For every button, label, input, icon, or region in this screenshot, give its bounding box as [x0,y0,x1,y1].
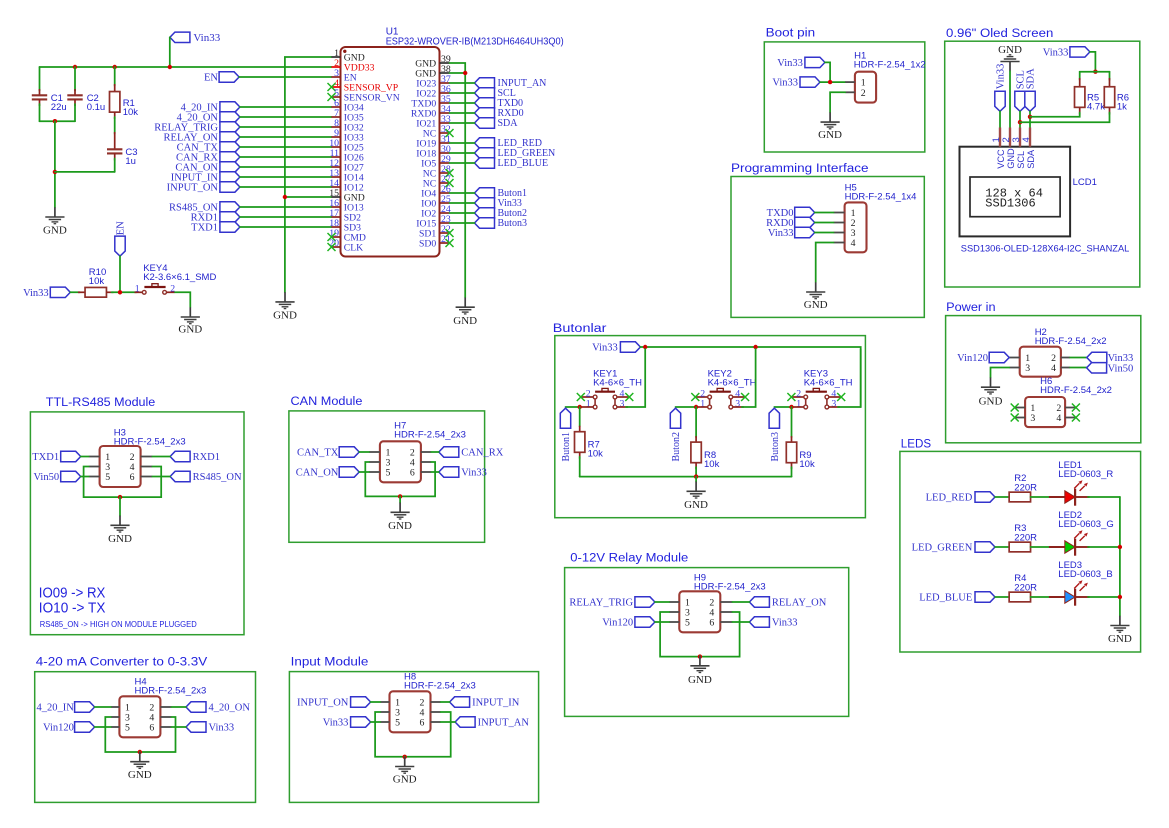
resistor R4 [1009,592,1030,602]
wire KEY1 node [566,406,580,408]
wire pin2 to RELAY_ON [732,601,749,603]
svg-text:SDA: SDA [1026,149,1036,169]
global label Vin33 (butonlar) [620,342,640,352]
junction at Vin33 drop [168,65,172,69]
svg-text:1u: 1u [125,156,136,167]
U1 pin 36 IO22 [440,92,450,94]
U1 pin 27 NC [440,182,450,184]
wire gnd stem [404,756,406,758]
capacitor C1 [39,67,41,91]
U1 pin 37 IO23 [440,82,450,84]
wire RELAY_ON to U1 [240,136,332,138]
svg-text:GND: GND [273,310,297,322]
junction at R1 top [113,65,117,69]
wire LED3 to gnd rail [1088,596,1120,598]
svg-text:10k: 10k [799,459,815,470]
junction led3 [1118,595,1122,599]
svg-text:ESP32-WROVER-IB(M213DH6464UH3Q: ESP32-WROVER-IB(M213DH6464UH3Q0) [386,37,564,48]
global label INPUT_AN [475,78,495,88]
junction KEY2 [694,405,698,409]
svg-text:INPUT_ON: INPUT_ON [297,698,349,709]
svg-text:4_20_ON: 4_20_ON [209,703,251,714]
global label Vin33 [749,617,769,627]
U1 pin 24 IO2 [440,212,450,214]
svg-text:EN: EN [204,73,218,84]
svg-text:1k: 1k [1117,102,1127,113]
U1 pin 13 IO14 [332,176,341,178]
svg-text:LEDS: LEDS [901,438,932,450]
junction C3 gnd [53,170,57,174]
wire RXD1 to U1 [240,216,332,218]
svg-text:3: 3 [1030,413,1035,424]
global label CAN_TX [339,447,359,457]
U1 pin 11 IO26 [332,156,341,158]
junction gnd loop [138,750,142,754]
svg-text:GND: GND [998,44,1022,56]
svg-text:5: 5 [685,618,690,629]
ground (Input Module) [404,757,406,767]
resistor R (KEY2) [695,407,697,437]
wire pin3 gnd loop [375,712,451,757]
global label RXD1 [220,212,240,222]
junction pin38 [463,71,467,75]
global label RXD0 [475,108,495,118]
global label Vin50 (power) [1087,363,1107,373]
svg-text:Vin33: Vin33 [209,723,235,734]
global label INPUT_IN [450,697,470,707]
svg-text:GND: GND [43,224,67,236]
svg-text:6: 6 [420,718,425,729]
svg-text:GND: GND [1108,633,1132,645]
U1 pin 8 IO32 [332,126,341,128]
wire CAN_RX to U1 [240,156,332,158]
wire R3 to LED2 [1031,546,1051,548]
svg-text:5: 5 [386,468,391,479]
global label TXD1 [220,222,240,232]
wire R6 to SCL [1020,113,1110,123]
global label Buton (vertical) KEY1 [560,408,570,428]
junction gnd bus [694,474,698,478]
global label CAN_ON [339,467,359,477]
resistor R10 [78,291,85,293]
wire pin3 gnd loop [105,717,175,752]
wire R bottom (KEY2) [695,467,697,477]
svg-text:4.7k: 4.7k [1087,102,1105,113]
wire gnd stem [139,751,141,753]
wire KEY2 pin3 to rail [742,349,756,407]
svg-text:Vin120: Vin120 [602,618,633,629]
svg-text:VCC: VCC [996,149,1006,169]
wire LED2 to gnd rail [1088,546,1120,548]
svg-text:HDR-F-2.54_2x2: HDR-F-2.54_2x2 [1035,336,1107,347]
U1 pin 35 TXD0 [440,102,450,104]
svg-text:GND: GND [393,774,417,786]
svg-text:Vin50: Vin50 [33,472,59,483]
global label Buton3 [475,218,495,228]
ground (U1 left) [284,292,286,302]
wire Vin33 drop [169,37,171,67]
svg-text:Vin33: Vin33 [772,78,798,89]
svg-text:LED-0603_R: LED-0603_R [1058,469,1113,480]
wire TXD1 to U1 [240,226,332,228]
global label Vin33 (prog) [795,227,815,237]
wire to R4 [995,596,1009,598]
svg-text:Power in: Power in [946,302,996,314]
resistor R (KEY1) [579,407,581,427]
svg-text:Input Module: Input Module [291,657,369,669]
wire vin33 to divider [1090,52,1096,72]
global label CAN_TX [220,142,240,152]
junction KEY3 [789,405,793,409]
ground (U1 right) [464,298,466,308]
svg-text:RELAY_TRIG: RELAY_TRIG [569,598,633,609]
svg-text:3: 3 [1025,363,1030,374]
global label RS485_ON [220,202,240,212]
junction led2 [1118,545,1122,549]
global label TXD1 [61,451,81,461]
wire pin2 to RXD1 [152,456,170,458]
svg-text:EN: EN [116,221,127,235]
svg-text:HDR-F-2.54_2x2: HDR-F-2.54_2x2 [1040,385,1112,396]
global label RELAY_ON [220,132,240,142]
junction SDA [1028,115,1032,119]
svg-text:GND: GND [108,533,132,545]
svg-text:LED-0603_B: LED-0603_B [1058,569,1112,580]
svg-text:4_20_IN: 4_20_IN [37,703,75,714]
svg-text:Buton1: Buton1 [561,432,572,461]
svg-text:4: 4 [1021,137,1032,142]
junction key2 rail [753,345,757,349]
global label Vin33 [186,722,206,732]
svg-text:Boot pin: Boot pin [766,27,816,39]
global label LED_BLUE [975,592,995,602]
wire TXD0 to H5 [815,212,834,214]
power flag Vin33 (top left) [170,32,190,42]
wire U1 pin15 to gnd rail [285,196,332,198]
wire KEY4 to gnd [175,292,190,307]
global label LED_GREEN [475,148,495,158]
wire R bottom (KEY1) [579,457,581,477]
resistor R (KEY3) [791,407,793,437]
svg-text:GND: GND [453,315,477,327]
ground (0-12V Relay Module) [699,656,701,666]
svg-text:Vin50: Vin50 [1108,363,1134,374]
svg-text:10k: 10k [123,107,139,118]
junction SCL [1018,120,1022,124]
wire CAN_TX to pin1 [359,451,369,453]
svg-text:Buton2: Buton2 [671,432,682,461]
wire R5 to SDA [1030,113,1080,117]
wire RS485_ON to U1 [240,206,332,208]
wire C3 to gnd bus [55,171,115,173]
svg-text:SSD1306: SSD1306 [985,196,1035,210]
svg-text:LED_GREEN: LED_GREEN [912,543,973,554]
wire CAN_ON to U1 [240,166,332,168]
wire U1 pin39 gnd [450,63,466,73]
wire U1 to INPUT_AN [450,82,475,84]
U1 pin 5 SENSOR_VN [332,96,341,98]
wire Vin50 to pin5 [81,476,89,478]
svg-text:HDR-F-2.54_1x4: HDR-F-2.54_1x4 [845,192,917,203]
global label TXD0 [475,98,495,108]
svg-text:Vin33: Vin33 [23,288,49,299]
svg-text:4-20 mA Converter to 0-3.3V: 4-20 mA Converter to 0-3.3V [36,657,208,669]
wire U1 to TXD0 [450,102,475,104]
wire pin6 to Vin33 [732,621,749,623]
global label INPUT_ON [351,697,371,707]
svg-text:GND: GND [178,324,202,336]
wire pin6 to INPUT_AN [441,721,455,723]
wire divider rail [1080,71,1110,73]
global label 4_20_ON [186,702,206,712]
svg-text:TXD1: TXD1 [32,452,59,463]
svg-text:LED_RED: LED_RED [926,493,973,504]
wire C1-C2 bottom [40,120,76,122]
U1 pin 38 GND [440,72,450,74]
U1 pin 39 GND [440,62,450,64]
junction boot [828,80,832,84]
no-connect H6 pins [1011,404,1019,412]
svg-text:4: 4 [851,238,856,249]
U1 pin 26 IO4 [440,192,450,194]
wire RXD0 to H5 [815,222,834,224]
wire GND bus left [54,121,56,207]
global label Vin33 (boot 1) [805,57,825,67]
svg-text:INPUT_IN: INPUT_IN [472,698,520,709]
global label Buton1 [475,188,495,198]
svg-text:LCD1: LCD1 [1073,177,1097,188]
svg-text:GND: GND [804,299,828,311]
ground (power in) [990,378,992,388]
global label Vin33 (oled top) [1070,47,1090,57]
svg-text:GND: GND [688,674,712,686]
global label LED_RED [975,492,995,502]
U1 pin 17 SD2 [332,216,341,218]
svg-text:0-12V Relay Module: 0-12V Relay Module [570,553,688,565]
svg-text:K4-6×6_TH: K4-6×6_TH [593,377,642,388]
global label 4_20_IN [220,102,240,112]
global label CAN_ON [220,162,240,172]
svg-text:IO09 -> RX: IO09 -> RX [39,585,106,601]
wire Vin120 to pin5 [655,621,669,623]
svg-text:6: 6 [410,468,415,479]
wire pin6 to Vin33 [431,471,439,473]
resistor R6 [1109,72,1111,80]
wire INPUT_ON to U1 [240,186,332,188]
U1 pin 4 SENSOR_VP [332,86,341,88]
U1 pin 7 IO35 [332,116,341,118]
junction divider top [1093,70,1097,74]
wire Vin33 to H5 [815,232,834,234]
global label Vin33 [475,198,495,208]
svg-text:GND: GND [1006,148,1016,169]
svg-text:220R: 220R [1014,483,1037,494]
svg-text:0.96" Oled Screen: 0.96" Oled Screen [946,28,1053,40]
svg-text:SDA: SDA [498,118,519,129]
U1 pin 14 IO12 [332,186,341,188]
global label LED_BLUE [475,158,495,168]
U1 pin 1 GND [332,56,341,58]
wire Vin33 to R10 [70,291,80,293]
ground (CAN Module) [399,503,401,513]
svg-text:SSD1306-OLED-128X64-I2C_SHANZA: SSD1306-OLED-128X64-I2C_SHANZAL [961,243,1130,253]
U1 pin 33 IO21 [440,122,450,124]
svg-text:GND: GND [979,395,1003,407]
wire Vin120 to pin5 [95,726,111,728]
wire pin6 to Vin33 [171,726,186,728]
svg-text:Vin33: Vin33 [193,32,220,44]
svg-text:Buton3: Buton3 [770,432,781,461]
svg-text:RS485_ON: RS485_ON [193,472,242,483]
wire pin3 gnd loop [84,467,162,498]
wire oled gnd to LCD pin2 [1009,71,1011,129]
resistor R2 [1009,492,1030,502]
wire RELAY_TRIG to pin1 [655,601,669,603]
svg-text:SDA: SDA [1026,68,1037,89]
wire 4_20_ON to U1 [240,116,332,118]
svg-text:HDR-F-2.54_2x3: HDR-F-2.54_2x3 [135,685,207,696]
global label SCL [475,88,495,98]
junction gnd loop [403,755,407,759]
wire pin2 to CAN_RX [431,451,439,453]
svg-text:6: 6 [130,472,135,483]
svg-text:Buton3: Buton3 [498,218,527,229]
global label Vin33 [439,467,459,477]
U1 pin 9 IO33 [332,136,341,138]
global label RXD1 [170,451,190,461]
svg-text:SCL: SCL [1016,151,1026,169]
svg-text:HDR-F-2.54_2x3: HDR-F-2.54_2x3 [404,681,476,692]
U1 pin 20 CLK [332,246,341,248]
global label Vin33 (power) [1087,352,1107,362]
wire button gnd bus [580,476,792,478]
wire gnd stem [699,655,701,657]
svg-text:1: 1 [135,284,140,295]
svg-text:0.1u: 0.1u [87,102,106,113]
wire pin3 gnd loop [365,462,435,496]
wire U1 to Buton1 [450,192,475,194]
wire U1 to LED_GREEN [450,152,475,154]
wire EN to U1 pin3 [239,76,331,78]
wire vin33-2 to H1 pin1 [820,81,845,83]
svg-text:GND: GND [128,769,152,781]
global label Vin33 [351,717,371,727]
wire RELAY_TRIG to U1 [240,126,332,128]
svg-text:HDR-F-2.54_2x3: HDR-F-2.54_2x3 [394,430,466,441]
svg-text:RELAY_ON: RELAY_ON [772,598,827,609]
svg-text:TTL-RS485 Module: TTL-RS485 Module [46,397,155,409]
global label INPUT_AN [455,717,475,727]
wire H1 pin2 to gnd [830,92,845,112]
wire EN to KEY4 node [119,256,121,292]
svg-text:Vin33: Vin33 [323,718,349,729]
global label Vin120 [635,617,655,627]
U1 pin 21 SD0 [440,242,450,244]
wire KEY3 node [774,406,791,408]
svg-text:Vin120: Vin120 [957,353,988,364]
svg-text:5: 5 [125,723,130,734]
ground (TTL-RS485 Module) [119,516,121,526]
global label EN [219,72,239,82]
svg-text:5: 5 [395,718,400,729]
global label SCL (oled) [1015,91,1025,111]
U1 pin 6 IO34 [332,106,341,108]
svg-text:RXD1: RXD1 [193,452,220,463]
wire to R2 [995,496,1009,498]
wire U1 pin1 gnd rail [285,57,332,292]
wire INPUT_IN to U1 [240,176,332,178]
svg-text:5: 5 [105,472,110,483]
wire KEY3 pin3 to rail [838,349,861,407]
global label 4_20_IN [75,702,95,712]
wire H2 pin3 to gnd [991,368,1010,378]
svg-text:INPUT_ON: INPUT_ON [167,183,219,194]
global label RS485_ON [170,471,190,481]
global label Vin50 [61,471,81,481]
svg-text:CAN_TX: CAN_TX [297,448,339,459]
wire R10 to KEY4 [112,291,137,293]
global label Vin120 (power) [989,352,1009,362]
global label INPUT_IN [220,172,240,182]
wire U1 to RXD0 [450,112,475,114]
svg-text:Vin33: Vin33 [772,618,798,629]
svg-text:Vin33: Vin33 [1043,48,1069,59]
U1 pin 10 IO25 [332,146,341,148]
svg-text:Butonlar: Butonlar [553,323,607,335]
global label SDA (oled) [1025,91,1035,111]
global label Vin33 (oled vertical) [995,91,1005,111]
wire vin33-1 to pin1 net [825,62,830,82]
wire R2 to LED1 [1031,496,1051,498]
resistor R3 [1009,542,1030,552]
svg-text:Programming Interface: Programming Interface [731,163,869,175]
svg-text:220R: 220R [1014,583,1037,594]
svg-text:Vin33: Vin33 [768,228,794,239]
junction KEY1 [578,405,582,409]
wire CAN_TX to U1 [240,146,332,148]
ground (butonlar) [695,482,697,492]
capacitor C2 [74,67,76,91]
svg-text:22u: 22u [51,102,67,113]
svg-text:4: 4 [1056,413,1061,424]
wire pin3 gnd loop [660,612,740,657]
global label LED_GREEN [975,542,995,552]
LCD module LCD1 [960,147,1071,237]
global label CAN_RX [220,152,240,162]
U1 pin 29 IO5 [440,162,450,164]
wire H2 pin4 to Vin50 [1070,367,1087,369]
svg-text:CLK: CLK [344,242,363,253]
svg-text:10k: 10k [588,449,604,460]
global label INPUT_ON [220,182,240,192]
wire button vin33 rail [640,347,860,407]
wire 3V3 rail y67 [40,66,332,68]
svg-text:6: 6 [709,618,714,629]
svg-text:SD0: SD0 [419,238,436,249]
junction EN node [118,290,122,294]
ground (C1 C2 C3) [54,207,56,217]
wire R bottom (KEY3) [791,467,793,477]
global label LED_RED [475,138,495,148]
svg-text:LED-0603_G: LED-0603_G [1058,519,1113,530]
svg-text:220R: 220R [1014,533,1037,544]
svg-text:Vin33: Vin33 [592,343,618,354]
ground (oled, inverted) [1009,62,1011,72]
wire led gnd rail [1119,497,1121,616]
svg-text:GND: GND [388,520,412,532]
ground (boot pin) [829,112,831,122]
global label RELAY_TRIG [635,597,655,607]
